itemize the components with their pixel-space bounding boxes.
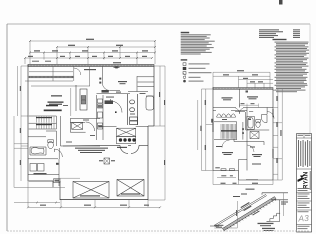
svg-text:RYAN: RYAN xyxy=(302,171,309,189)
svg-text:A3: A3 xyxy=(297,213,309,224)
